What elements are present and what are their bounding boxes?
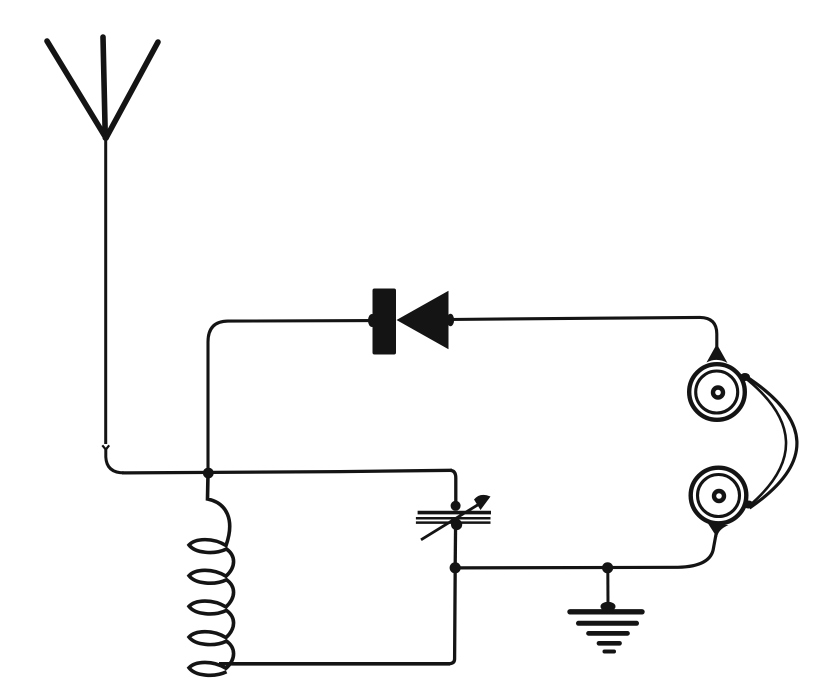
headphone headband attach top bbox=[740, 373, 750, 381]
wire capacitor top segment bbox=[450, 470, 456, 505]
headphone HP1 top earpiece center bbox=[713, 388, 723, 398]
node capacitor top bbox=[451, 501, 461, 511]
headphone bottom lead blob bbox=[708, 524, 729, 538]
headphone HP2 bottom earpiece center bbox=[714, 491, 724, 501]
wire A horizontal row to capacitor bbox=[122, 470, 452, 473]
wire capacitor bottom segment bbox=[454, 524, 458, 565]
node capacitor bottom bbox=[451, 519, 462, 530]
diode D1 triangle bbox=[397, 291, 449, 349]
node bottom row junction bbox=[450, 562, 461, 573]
ground stem bbox=[606, 568, 609, 604]
inductor L1 coil bbox=[189, 474, 234, 675]
wire E headphones to ground row bbox=[455, 530, 717, 568]
wire lead bottom curve into row bbox=[106, 448, 124, 473]
wire lead kink mark bbox=[102, 445, 109, 449]
headphone headband inner arc bbox=[744, 377, 786, 506]
diode D1 right terminal bump bbox=[447, 314, 454, 326]
headphone HP2 bottom earpiece outer bbox=[691, 468, 747, 524]
antenna A1 bbox=[47, 37, 158, 138]
diode D1 left terminal bump bbox=[368, 314, 376, 327]
headphone HP1 top earpiece inner ring bbox=[696, 371, 738, 413]
ground stem blob bbox=[601, 602, 616, 612]
node main junction bbox=[203, 468, 214, 479]
ground GND bars bbox=[570, 612, 642, 652]
capacitor C1 top plate bbox=[418, 511, 491, 515]
capacitor C1 arrow shaft bbox=[421, 504, 480, 540]
capacitor C1 arrow head bbox=[474, 495, 491, 510]
headphone HP2 bottom earpiece inner ring bbox=[698, 475, 740, 517]
wire cap junction down to bottom row bbox=[448, 568, 455, 664]
diode D1 cathode bar bbox=[373, 289, 397, 355]
headphone top lead blob bbox=[707, 344, 728, 363]
capacitor C1 bottom plate line1 bbox=[416, 517, 491, 520]
wire antenna down-lead bbox=[104, 136, 107, 444]
headphone headband outer arc bbox=[743, 375, 797, 509]
wire bottom row to coil bbox=[219, 662, 450, 666]
wire C diode to headphones bbox=[448, 317, 717, 354]
node ground junction bbox=[602, 562, 613, 573]
capacitor C1 bottom plate line2 bbox=[416, 521, 491, 524]
wire B left branch up bbox=[208, 321, 373, 470]
headphone HP1 top earpiece outer bbox=[689, 364, 745, 420]
headphone headband attach bottom bbox=[744, 501, 754, 509]
